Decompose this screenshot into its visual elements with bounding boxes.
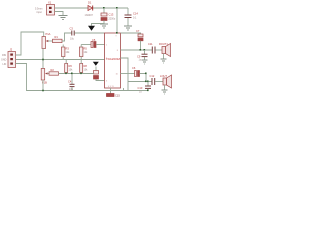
resistor R2 xyxy=(49,68,59,75)
potentiometer P1A xyxy=(42,32,53,49)
ground G3 xyxy=(124,26,132,30)
svg-text:LIN: LIN xyxy=(3,63,7,66)
resistor R6 xyxy=(65,60,73,73)
svg-text:P1A: P1A xyxy=(46,32,51,36)
diode D1 xyxy=(85,1,94,17)
capacitor C15 xyxy=(107,88,121,98)
svg-text:C13: C13 xyxy=(109,13,114,17)
capacitor C4 xyxy=(68,74,75,91)
capacitor C6 xyxy=(132,66,140,77)
speaker ROUT1 xyxy=(159,42,171,57)
svg-text:input: input xyxy=(37,11,43,14)
wire C12 to speaker xyxy=(155,81,163,83)
wire +V rail xyxy=(55,7,129,9)
resistor R1 xyxy=(53,35,63,43)
wire speaker to ground xyxy=(163,54,165,59)
svg-text:TDA2009A: TDA2009A xyxy=(106,57,121,61)
wire T2 to C2 xyxy=(95,67,97,71)
wire IC pin to rail xyxy=(123,88,125,91)
svg-text:R2: R2 xyxy=(51,68,55,72)
svg-text:C6: C6 xyxy=(132,66,136,70)
capacitor C9 xyxy=(137,50,148,62)
svg-text:ROUT1: ROUT1 xyxy=(159,42,168,46)
resistor R5 xyxy=(80,45,89,60)
capacitor C12 xyxy=(150,74,155,85)
wire bus (signal common) xyxy=(16,59,105,61)
svg-text:10u: 10u xyxy=(70,38,75,41)
capacitor C5 xyxy=(91,38,96,48)
wire R2 to C2 xyxy=(59,73,94,75)
wire P1A bottom to bus to P1B top xyxy=(42,49,44,69)
svg-text:GND: GND xyxy=(1,59,7,62)
svg-text:C3: C3 xyxy=(70,27,74,31)
wire P1B bottom to rail xyxy=(42,80,44,91)
capacitor C3 xyxy=(70,27,75,41)
svg-text:1N4007: 1N4007 xyxy=(85,14,94,17)
node junction rail/C13 xyxy=(103,7,105,9)
wire C11 to speaker xyxy=(155,49,162,51)
svg-text:RIN: RIN xyxy=(2,54,6,57)
svg-text:C7: C7 xyxy=(136,29,140,33)
capacitor C10 xyxy=(138,82,152,94)
power arrow T1 xyxy=(88,26,95,31)
svg-text:4 9 11: 4 9 11 xyxy=(108,86,114,88)
connector X1 (power input) xyxy=(47,1,55,15)
op-amp U1 TDA2009A xyxy=(105,33,121,88)
svg-text:C12: C12 xyxy=(150,74,155,78)
wire speaker LOUT to ground xyxy=(164,85,166,90)
wire rail down to IC top xyxy=(116,8,118,33)
wire W33 IC to C7 xyxy=(121,33,141,34)
wire C5 to IC pin1 xyxy=(96,44,105,46)
ground G2 xyxy=(100,24,108,28)
svg-text:X1: X1 xyxy=(48,1,52,5)
speaker LOUT xyxy=(160,74,172,88)
wire C2 to IC xyxy=(96,79,105,81)
potentiometer P1B xyxy=(41,69,49,85)
ground G5 xyxy=(161,59,167,63)
svg-text:10u: 10u xyxy=(69,88,74,91)
node junction rail/IC feed xyxy=(116,7,118,9)
wire J1 pin1 up to P1A xyxy=(16,32,44,55)
ground G6 xyxy=(162,90,168,94)
svg-text:D1: D1 xyxy=(88,1,92,5)
svg-text:C4: C4 xyxy=(68,80,72,84)
svg-text:LOUT: LOUT xyxy=(160,74,167,78)
capacitor C11 xyxy=(148,42,155,54)
resistor R8 xyxy=(80,60,88,73)
svg-text:C11: C11 xyxy=(148,42,153,46)
svg-text:2200u: 2200u xyxy=(109,18,116,21)
wire connector to ground xyxy=(55,12,64,16)
wire LOUT row xyxy=(128,81,152,83)
ground G4 xyxy=(142,60,148,64)
wire C6 to junction xyxy=(140,74,147,82)
connector J1 (RIN GND LIN) xyxy=(8,48,16,68)
capacitor C2 xyxy=(94,71,99,80)
svg-text:C5: C5 xyxy=(92,38,96,42)
resistor R3 xyxy=(62,45,71,60)
svg-text:C14: C14 xyxy=(133,12,138,16)
wire to power arrow xyxy=(92,24,105,26)
wire IC pin to feedback xyxy=(121,58,129,91)
svg-text:R1: R1 xyxy=(55,35,59,39)
capacitor C13 xyxy=(101,8,116,24)
wire IC pin10 to C6 xyxy=(121,73,135,75)
capacitor C7 xyxy=(136,29,143,50)
wire IC pin8 to C11 xyxy=(121,49,153,51)
wire J1 pin3 down to bottom rail xyxy=(16,64,149,91)
wire C3 to IC xyxy=(75,32,105,34)
power arrow T2 xyxy=(93,62,99,66)
svg-text:C15: C15 xyxy=(115,94,120,98)
capacitor C14 xyxy=(125,8,139,26)
wire R1 to C3 xyxy=(62,33,72,41)
ground G1 xyxy=(59,16,68,20)
junction dots xyxy=(116,32,118,34)
wire input node to C5 xyxy=(81,44,91,46)
